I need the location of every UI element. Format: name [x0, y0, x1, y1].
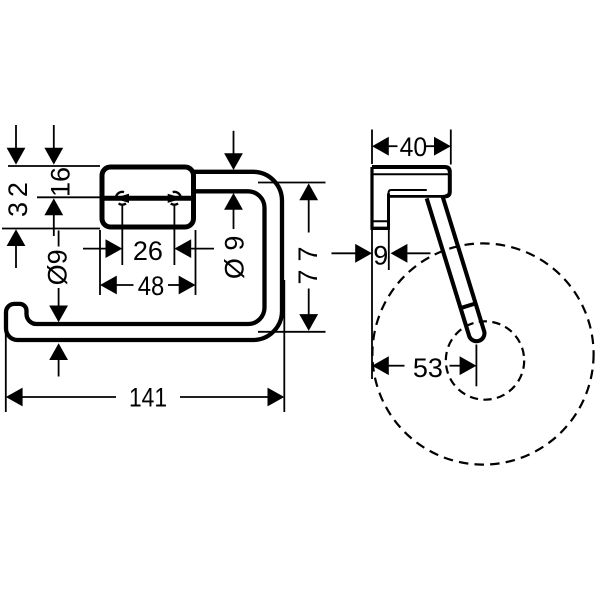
dim 77 extension lines — [258, 182, 326, 184]
svg-text:26: 26 — [133, 236, 163, 266]
dim diameter 9 left arrows — [49, 231, 68, 377]
svg-text:141: 141 — [129, 383, 167, 413]
dim 16 arrow bottom — [44, 198, 63, 236]
paper roll core dashed circle — [446, 321, 524, 399]
bracket inner line with fillet (side view) — [389, 190, 427, 194]
dim 26 extension lines — [121, 204, 123, 265]
svg-text:7: 7 — [293, 246, 323, 261]
plate top edge (side view) — [372, 167, 450, 196]
extension line 32 bottom — [2, 228, 100, 230]
bar cone end left — [114, 194, 129, 203]
mounting bar through plate — [102, 196, 194, 201]
dim diameter 9 right arrows — [224, 131, 243, 229]
svg-text:2: 2 — [3, 182, 33, 197]
svg-text:48: 48 — [138, 271, 165, 301]
dim 9 extension lines (side view) — [371, 229, 373, 379]
extension line 16 bottom — [37, 196, 101, 198]
svg-text:53: 53 — [413, 353, 443, 383]
bracket bottom edge — [371, 227, 391, 230]
wall plate (front view) — [102, 167, 194, 227]
svg-text:16: 16 — [46, 167, 76, 197]
dim 32 arrow top — [7, 125, 26, 165]
screw hole arc right — [173, 192, 181, 198]
svg-text:9: 9 — [373, 240, 388, 270]
screw hole arc left — [116, 192, 124, 198]
svg-text:40: 40 — [400, 132, 428, 162]
svg-text:7: 7 — [293, 269, 323, 284]
roll centre line at arm tip — [475, 345, 477, 387]
plate front line (side view) — [372, 173, 449, 175]
dim 53 arrows — [372, 356, 476, 375]
bar cone end right — [168, 194, 183, 203]
dim 77 arrows — [299, 183, 318, 331]
dim 26 arrows — [83, 239, 214, 258]
dim 48 extension lines — [99, 230, 101, 295]
svg-text:3: 3 — [3, 202, 33, 217]
dim 32 arrow bottom — [7, 229, 26, 268]
svg-text:Ø9: Ø9 — [42, 249, 72, 285]
arm joint line — [460, 303, 477, 308]
dim 141 extension lines — [5, 326, 7, 412]
dim 141 arrows — [6, 388, 285, 407]
dim 16 arrow top — [44, 125, 63, 165]
roll holder loop (front view) — [6, 172, 282, 340]
roll holder arm (side view) — [427, 195, 485, 341]
bracket bottom inner line — [372, 220, 389, 222]
svg-text:Ø 9: Ø 9 — [220, 236, 250, 280]
dim 9 arrows (side view) — [332, 244, 431, 263]
dim 40 arrows — [372, 137, 451, 156]
plate bottom edge (side view) — [389, 195, 446, 198]
paper roll outer dashed circle — [372, 243, 593, 464]
dim 48 arrows — [100, 276, 196, 295]
extension line top (plate top) — [8, 165, 100, 167]
dim 40 extension lines — [371, 130, 373, 165]
bracket right edge (side view) — [387, 194, 390, 229]
wall bracket left edge (side view) — [370, 167, 373, 229]
